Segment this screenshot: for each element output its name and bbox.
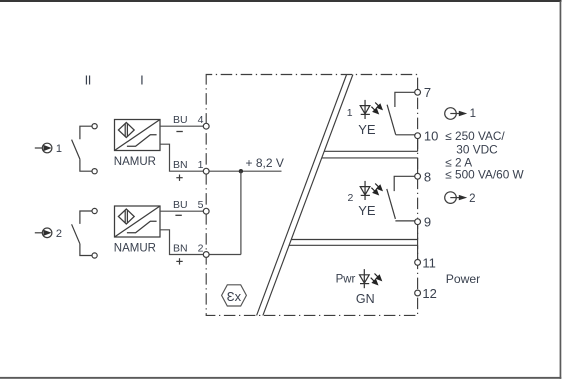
svg-text:BU: BU [173, 114, 188, 126]
switch S1 [72, 124, 98, 174]
svg-text:30 VDC: 30 VDC [456, 143, 498, 157]
svg-text:1: 1 [198, 159, 204, 171]
svg-text:4: 4 [198, 114, 204, 126]
svg-text:11: 11 [422, 256, 436, 271]
LED 1 arrows [371, 103, 382, 114]
page bottom border [0, 377, 561, 379]
right border solid segments [417, 136, 419, 263]
relay contact K2 [387, 176, 415, 221]
svg-text:YE: YE [358, 203, 376, 218]
device outline (dash-dot) [206, 75, 417, 316]
input symbol 2 [35, 228, 52, 238]
svg-text:2: 2 [469, 193, 475, 205]
terminal 11 [415, 260, 421, 266]
svg-text:2: 2 [56, 228, 62, 240]
wire rail down [240, 171, 242, 254]
separator relay1/relay2 [322, 151, 418, 158]
sensor B2 (NAMUR) [115, 206, 161, 237]
svg-text:BN: BN [173, 243, 188, 255]
svg-text:BN: BN [173, 159, 188, 171]
terminal 7 [415, 89, 421, 95]
LED 2 arrows [371, 184, 382, 195]
terminal 1 [203, 168, 209, 174]
svg-text:1: 1 [56, 143, 62, 155]
wire +8.2V rail [209, 170, 281, 172]
svg-text:1: 1 [347, 107, 353, 119]
terminal 4 [203, 123, 209, 129]
relay contact K1 [387, 92, 415, 135]
isolation diagonal left [257, 75, 347, 316]
svg-text:Ɛx: Ɛx [227, 289, 242, 304]
Ex hexagon [222, 285, 247, 306]
minus ch1 [176, 131, 182, 133]
terminal 9 [415, 219, 421, 225]
wire BN1 [160, 144, 203, 171]
input symbol 1 [35, 143, 52, 153]
svg-text:I: I [140, 73, 144, 88]
svg-text:NAMUR: NAMUR [114, 156, 156, 168]
svg-text:2: 2 [347, 192, 353, 204]
output symbol 1 [445, 108, 468, 120]
plus ch2 [176, 258, 182, 264]
svg-text:Pwr: Pwr [336, 273, 356, 285]
svg-text:≤ 500 VA/60 W: ≤ 500 VA/60 W [445, 167, 524, 181]
svg-text:10: 10 [424, 129, 438, 144]
terminal 12 [415, 290, 421, 296]
output symbol 2 [445, 192, 468, 204]
svg-text:+ 8,2 V: + 8,2 V [246, 156, 284, 170]
terminal 10 [415, 133, 421, 139]
svg-text:NAMUR: NAMUR [114, 243, 156, 255]
plus ch1 [176, 175, 182, 181]
svg-text:YE: YE [358, 122, 376, 137]
LED 2 (YE) [360, 181, 370, 200]
LED 3 arrows [371, 274, 382, 285]
svg-text:9: 9 [424, 214, 431, 229]
LED 1 (YE) [360, 100, 370, 119]
svg-text:8: 8 [424, 169, 431, 184]
separator relay2/power [289, 240, 418, 246]
page right border [560, 1, 562, 379]
wire BU1 [160, 125, 203, 127]
svg-text:7: 7 [424, 85, 431, 100]
svg-text:12: 12 [422, 286, 436, 301]
minus ch2 [175, 214, 181, 216]
wire BU2 [160, 210, 203, 212]
LED 3 (GN power) [360, 269, 370, 288]
junction node [239, 169, 243, 173]
svg-text:BU: BU [173, 199, 188, 211]
terminal 2 [203, 252, 209, 258]
sensor B1 (NAMUR) [115, 120, 161, 151]
switch S2 [72, 208, 98, 258]
isolation diagonal right [263, 75, 353, 316]
terminal 8 [415, 173, 421, 179]
svg-text:Power: Power [446, 272, 481, 286]
svg-text:5: 5 [198, 199, 204, 211]
svg-text:II: II [85, 73, 91, 88]
svg-text:≤ 250 VAC/: ≤ 250 VAC/ [445, 129, 505, 143]
svg-text:GN: GN [356, 292, 375, 306]
page top border [0, 0, 562, 2]
terminal 5 [203, 208, 209, 214]
wire terminal2 to rail [209, 254, 241, 256]
svg-text:1: 1 [470, 108, 476, 120]
wire BN2 [160, 230, 203, 255]
svg-text:2: 2 [198, 243, 204, 255]
